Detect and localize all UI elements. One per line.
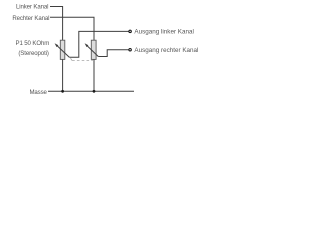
- wire rechter kanal input: [50, 17, 94, 40]
- wire Masse rail: [48, 90, 134, 92]
- svg-text:P1 50 KOhm: P1 50 KOhm: [16, 40, 50, 47]
- junction dot pot a ground: [61, 90, 64, 93]
- potentiometer P1b body: [91, 40, 96, 59]
- potentiometer P1a wiper arrow: [55, 43, 70, 57]
- gang coupling dashed link: [71, 58, 93, 61]
- svg-text:Ausgang rechter Kanal: Ausgang rechter Kanal: [134, 47, 198, 54]
- junction dot pot b ground: [93, 90, 96, 93]
- wire pot a to ground: [62, 59, 64, 91]
- wire linker kanal input: [50, 7, 63, 41]
- svg-text:Masse: Masse: [29, 89, 47, 96]
- terminal Ausgang rechter Kanal: [129, 49, 131, 51]
- potentiometer P1b wiper arrow: [85, 43, 99, 56]
- svg-text:(Stereopoti): (Stereopoti): [18, 50, 48, 57]
- svg-text:Ausgang linker Kanal: Ausgang linker Kanal: [134, 28, 194, 35]
- potentiometer P1a body: [60, 40, 65, 59]
- wire wiper b to output: [98, 50, 128, 57]
- svg-text:Linker Kanal: Linker Kanal: [16, 4, 48, 11]
- wire pot b to ground: [93, 59, 95, 91]
- svg-text:Rechter Kanal: Rechter Kanal: [12, 15, 49, 22]
- wire wiper a to output: [69, 31, 128, 57]
- terminal Ausgang linker Kanal: [129, 30, 131, 32]
